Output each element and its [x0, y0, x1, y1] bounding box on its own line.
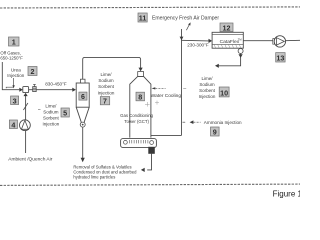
svg-text:Lime/: Lime/ — [45, 104, 57, 109]
urea lance — [6, 87, 13, 88]
valve slash — [23, 103, 28, 110]
icon 12 — [220, 23, 233, 32]
wire recirc down — [219, 54, 241, 66]
svg-text:Sorbent: Sorbent — [98, 84, 115, 89]
svg-text:3: 3 — [13, 96, 17, 105]
svg-text:6: 6 — [81, 94, 85, 101]
svg-text:Tower (GCT): Tower (GCT) — [124, 119, 149, 124]
icon 2 — [28, 67, 37, 77]
svg-text:12: 12 — [223, 23, 231, 32]
icon 1 — [9, 37, 20, 47]
label sorbent injection 10 — [199, 76, 216, 99]
flow arrow into mixer — [19, 88, 23, 92]
svg-text:5: 5 — [63, 109, 67, 118]
svg-text:9: 9 — [213, 128, 217, 137]
wire riser to cataflex — [181, 29, 183, 135]
wire fan outlet — [286, 39, 300, 41]
svg-text:Sodium: Sodium — [199, 82, 215, 87]
rotary valve cyclone — [80, 122, 85, 127]
recirc port circle — [238, 49, 243, 54]
water cooling arrow — [152, 87, 156, 89]
heater/damper — [33, 84, 37, 91]
annotation arrow damper — [186, 25, 189, 31]
rotary valve GCT — [149, 147, 155, 153]
svg-text:11: 11 — [139, 14, 147, 23]
svg-text:Urea: Urea — [11, 67, 21, 72]
svg-text:Injection: Injection — [43, 122, 60, 127]
icon 9 — [211, 127, 220, 137]
bottom border rule — [0, 184, 300, 185]
label sorbent injection 5 — [38, 104, 60, 127]
top border rule — [0, 7, 300, 8]
svg-text:Lime/: Lime/ — [100, 72, 112, 77]
wire off-gas inlet — [2, 62, 19, 90]
svg-text:Sorbent: Sorbent — [199, 88, 216, 93]
svg-text:8: 8 — [138, 93, 142, 102]
svg-text:Sodium: Sodium — [98, 78, 114, 83]
svg-text:Water Cooling: Water Cooling — [151, 93, 182, 99]
label sorbent injection 7 — [98, 72, 115, 96]
svg-text:Sodium: Sodium — [43, 110, 59, 115]
ammonia injection leader — [183, 121, 186, 123]
svg-text:230-300°F: 230-300°F — [187, 42, 209, 47]
wire duct to cyclone — [36, 89, 72, 91]
icon 6 — [79, 92, 87, 101]
riser tick — [183, 88, 186, 90]
svg-text:TM: TM — [238, 37, 242, 41]
svg-text:Lime/: Lime/ — [201, 76, 213, 81]
mixer box — [23, 87, 29, 93]
svg-text:7: 7 — [103, 99, 107, 106]
emergency air down arrow — [180, 37, 184, 41]
icon 7 — [100, 97, 109, 106]
svg-text:Ambient /Quench Air: Ambient /Quench Air — [8, 156, 52, 162]
icon 4 — [9, 120, 17, 129]
svg-text:10: 10 — [220, 88, 228, 97]
icon 3 — [11, 96, 19, 105]
svg-text:Sorbent: Sorbent — [43, 116, 60, 121]
icon 10 — [219, 87, 229, 97]
svg-text:Gas Conditioning: Gas Conditioning — [120, 113, 154, 118]
wire urea drop — [13, 78, 15, 86]
svg-text:Emergency Fresh Air Damper: Emergency Fresh Air Damper — [152, 15, 219, 21]
svg-text:Injection: Injection — [98, 90, 115, 95]
wire riser cyclone to GCT — [83, 57, 141, 79]
icon 13 — [276, 53, 285, 63]
svg-text:1: 1 — [12, 38, 16, 47]
cyclone body — [76, 79, 89, 122]
wire cataflex to fan — [243, 40, 272, 42]
GCT tower — [130, 76, 151, 137]
nozzle cross marks — [145, 102, 150, 107]
svg-text:650-1250°F: 650-1250°F — [0, 55, 23, 60]
icon 5 — [61, 108, 69, 118]
svg-text:CataFlex: CataFlex — [220, 39, 240, 45]
GCT nozzle — [138, 72, 144, 77]
svg-text:Ammonia Injection: Ammonia Injection — [204, 120, 242, 125]
svg-text:13: 13 — [276, 54, 284, 63]
wire tee duct to cataflex — [182, 39, 209, 42]
wire cyclone dust drop — [82, 127, 84, 159]
svg-text:Figure 1: Figure 1 — [273, 189, 300, 198]
wire quench air riser — [25, 95, 27, 153]
svg-text:4: 4 — [11, 120, 15, 129]
ID fan — [273, 36, 286, 47]
drag conveyor — [121, 139, 157, 148]
svg-text:Injection: Injection — [199, 94, 216, 99]
label removal text — [73, 165, 137, 180]
svg-text:830-450°F: 830-450°F — [45, 82, 67, 87]
wire GCT dust discharge — [147, 153, 151, 170]
blower fan — [20, 120, 31, 131]
svg-text:2: 2 — [31, 67, 35, 76]
CataFlex filter box — [212, 32, 243, 48]
svg-text:hydrated lime particles: hydrated lime particles — [73, 174, 115, 179]
icon 11 — [138, 13, 147, 23]
icon 8 — [136, 92, 145, 101]
wire duct to heater — [29, 89, 33, 91]
wire GCT outlet duct — [151, 134, 182, 136]
svg-text:Injection: Injection — [7, 73, 25, 78]
